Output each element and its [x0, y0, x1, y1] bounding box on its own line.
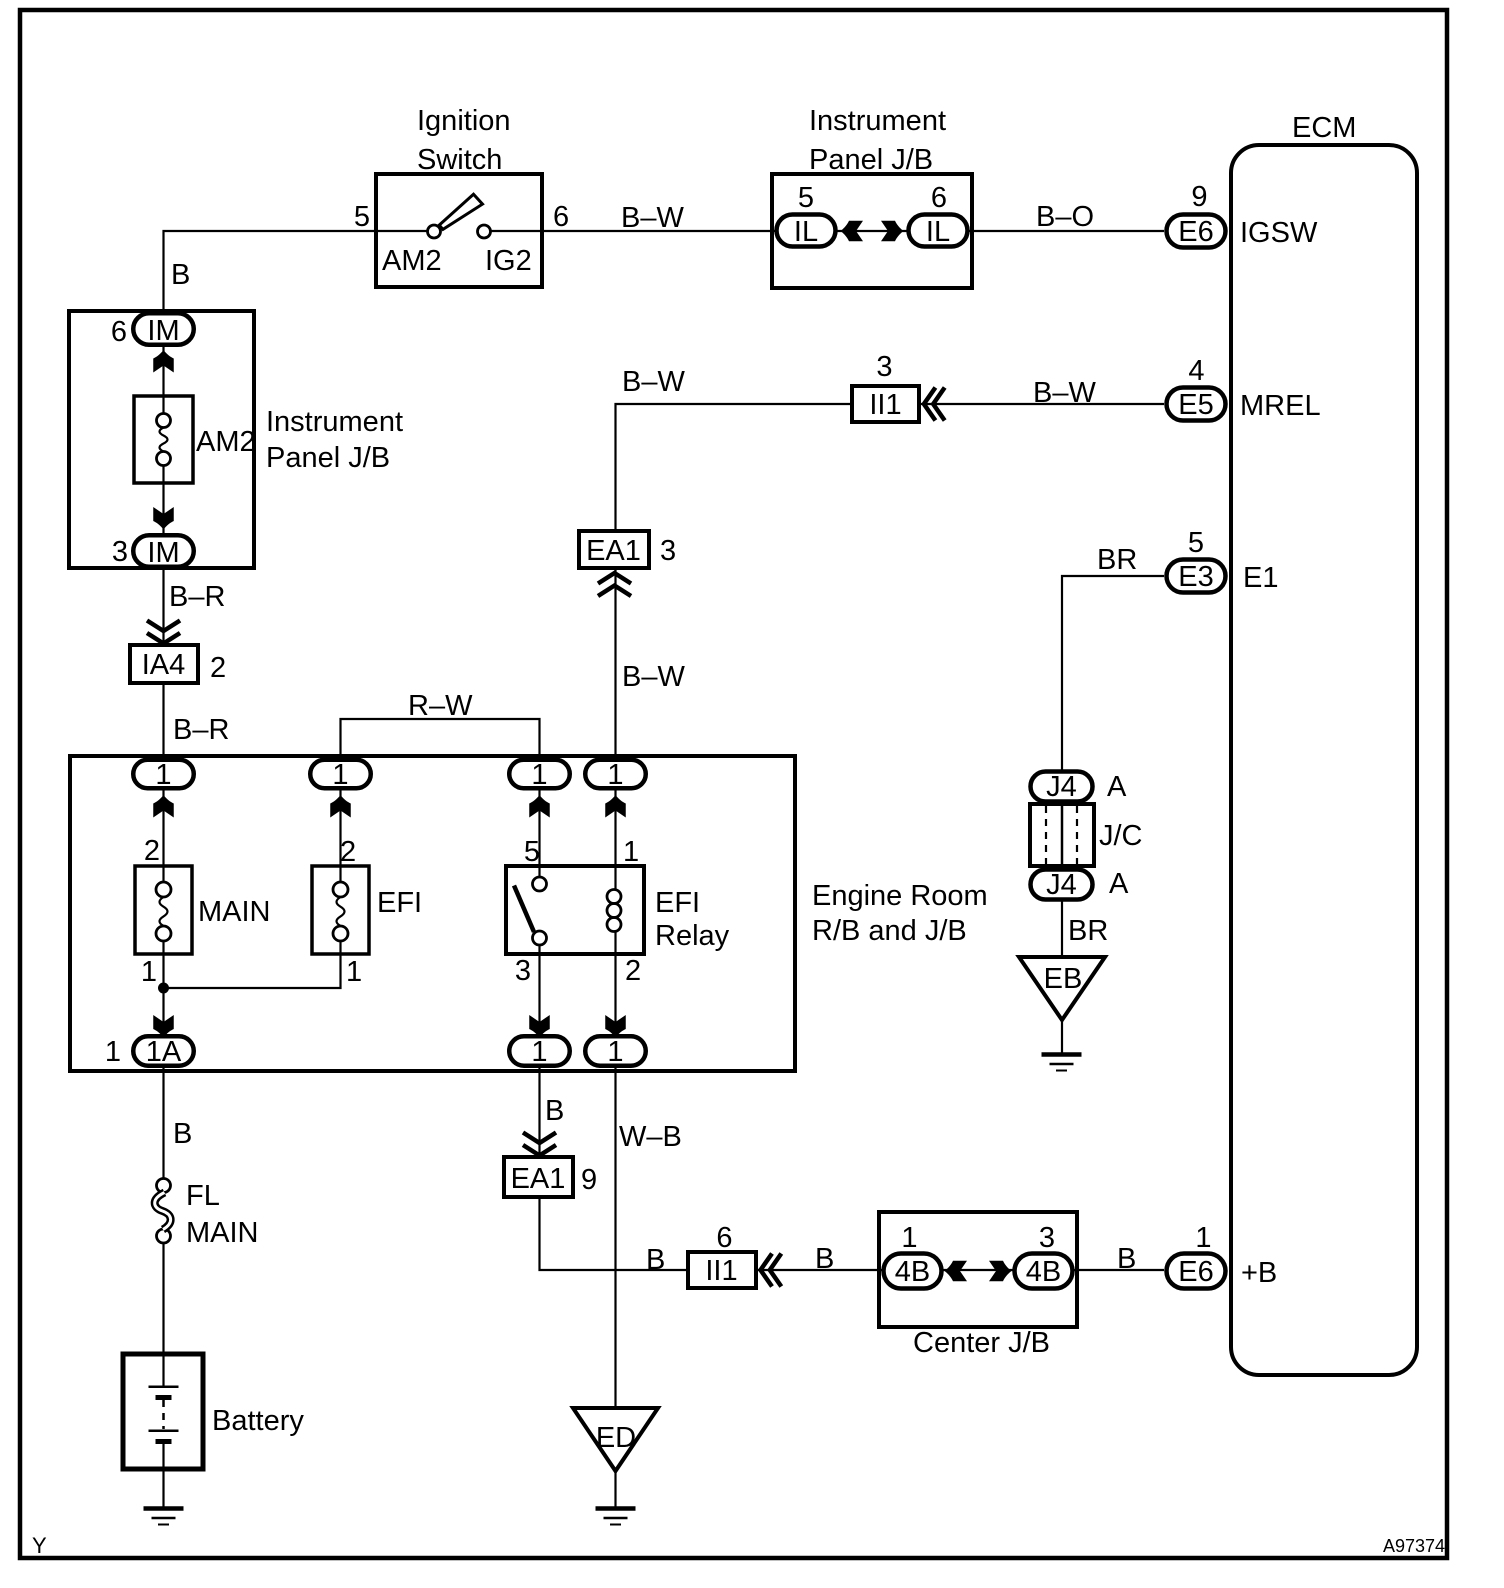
svg-text:Switch: Switch	[417, 144, 502, 176]
svg-text:B: B	[815, 1243, 834, 1275]
svg-text:Instrument: Instrument	[809, 105, 946, 137]
svg-text:1: 1	[1195, 1222, 1211, 1254]
chevron arrow into IA4	[147, 621, 180, 644]
chevron arrow into EA1 3	[598, 573, 631, 596]
svg-text:3: 3	[876, 351, 892, 383]
svg-text:ECM: ECM	[1292, 112, 1356, 144]
svg-text:J/C: J/C	[1099, 820, 1143, 852]
center J/B box	[879, 1212, 1077, 1359]
ground ED triangle	[573, 1408, 658, 1471]
svg-text:A: A	[1109, 868, 1129, 900]
ground symbol EB	[1042, 1055, 1082, 1071]
svg-text:6: 6	[111, 316, 127, 348]
svg-text:E3: E3	[1178, 561, 1213, 593]
connector oval E6 9 (IGSW)	[1167, 181, 1318, 249]
svg-text:AM2: AM2	[196, 426, 256, 458]
svg-text:IL: IL	[926, 216, 950, 248]
svg-text:4B: 4B	[1026, 1256, 1061, 1288]
svg-text:Engine Room: Engine Room	[812, 880, 988, 912]
arrow up into IM 6	[153, 350, 174, 373]
svg-text:3: 3	[1039, 1222, 1055, 1254]
fuse AM2	[134, 396, 256, 483]
connector oval 1 (relay coil bottom)	[585, 1036, 646, 1068]
chevron arrow into II1 3	[924, 388, 945, 421]
arrow up into relay switch top oval	[529, 795, 550, 818]
svg-text:E6: E6	[1178, 216, 1213, 248]
connector oval 1A (pin 1)	[105, 1036, 194, 1068]
svg-text:EA1: EA1	[511, 1163, 566, 1195]
svg-text:1A: 1A	[146, 1036, 182, 1068]
svg-text:1: 1	[607, 1036, 623, 1068]
fuse EFI	[312, 836, 422, 988]
svg-text:2: 2	[340, 836, 356, 868]
connector oval 4B 1	[884, 1222, 942, 1289]
svg-text:E1: E1	[1243, 562, 1278, 594]
connector oval 1 (EFI top)	[310, 759, 371, 791]
wire inside instrument panel J/B (AM2 fuse column)	[162, 347, 164, 398]
svg-text:R–W: R–W	[408, 690, 473, 722]
connector oval E5 4 (MREL)	[1167, 355, 1321, 422]
svg-text:B–W: B–W	[621, 202, 684, 234]
svg-text:Relay: Relay	[655, 920, 730, 952]
svg-text:B: B	[173, 1118, 192, 1150]
wire W-B from relay coil to ED ground	[614, 1067, 616, 1409]
fuse MAIN	[135, 835, 271, 988]
svg-text:IM: IM	[147, 315, 179, 347]
svg-text:Instrument: Instrument	[266, 406, 403, 438]
instrument panel J/B box (left)	[69, 311, 403, 568]
svg-text:3: 3	[660, 535, 676, 567]
svg-text:1: 1	[155, 759, 171, 791]
svg-text:1: 1	[105, 1036, 121, 1068]
svg-text:ED: ED	[596, 1422, 636, 1454]
svg-text:IL: IL	[794, 216, 818, 248]
arrow down into IM 3	[153, 507, 174, 530]
arrow left between 4B ovals	[945, 1261, 968, 1282]
svg-text:MAIN: MAIN	[186, 1217, 259, 1249]
wire IGSW row: IG2 to IL and E6	[491, 230, 1165, 232]
svg-text:1: 1	[141, 956, 157, 988]
ground EB triangle	[1019, 957, 1105, 1020]
ground symbol battery	[144, 1509, 184, 1525]
svg-text:A: A	[1107, 771, 1127, 803]
connector II1 3 (MREL row)	[852, 351, 919, 422]
wire relay switch column top	[538, 790, 540, 868]
svg-text:2: 2	[144, 835, 160, 867]
junction connector J/C	[1030, 804, 1143, 866]
svg-text:1: 1	[607, 759, 623, 791]
wire B from relay to EA1-9 and +B row	[540, 1067, 1165, 1270]
svg-text:6: 6	[716, 1222, 732, 1254]
arrow down into relay coil bottom oval	[605, 1015, 626, 1038]
svg-text:E6: E6	[1178, 1256, 1213, 1288]
svg-text:5: 5	[354, 201, 370, 233]
svg-text:4B: 4B	[895, 1256, 930, 1288]
connector oval E3 5 (E1)	[1167, 527, 1279, 594]
arrow right between IL ovals	[881, 221, 904, 242]
battery	[123, 1354, 304, 1469]
svg-text:B: B	[646, 1244, 665, 1276]
chevron arrow into EA1 9	[523, 1133, 556, 1156]
svg-text:E5: E5	[1178, 389, 1213, 421]
svg-text:II1: II1	[705, 1255, 737, 1287]
svg-text:IG2: IG2	[485, 245, 532, 277]
svg-text:IA4: IA4	[142, 649, 186, 681]
svg-text:EFI: EFI	[655, 887, 700, 919]
svg-text:B: B	[545, 1095, 564, 1127]
engine room R/B and J/B box	[70, 756, 988, 1071]
svg-text:6: 6	[931, 182, 947, 214]
arrow down into 1A oval	[153, 1015, 174, 1038]
connector EA1 3	[579, 531, 676, 568]
svg-text:4: 4	[1188, 355, 1204, 387]
svg-text:EA1: EA1	[586, 535, 641, 567]
svg-text:AM2: AM2	[382, 245, 442, 277]
instrument panel J/B box (top)	[772, 105, 972, 288]
svg-text:1: 1	[901, 1222, 917, 1254]
svg-text:1: 1	[623, 836, 639, 868]
svg-text:5: 5	[1188, 527, 1204, 559]
wire BR from E3 to J4	[1062, 576, 1164, 770]
svg-text:5: 5	[524, 836, 540, 868]
connector II1 6 (+B row)	[688, 1222, 756, 1288]
fusible link FL MAIN	[155, 1179, 259, 1250]
svg-text:B–W: B–W	[622, 661, 685, 693]
wire EB apex to ground	[1061, 1020, 1063, 1054]
svg-text:B: B	[1117, 1243, 1136, 1275]
connector oval J4 A (top)	[1031, 771, 1128, 803]
svg-text:EB: EB	[1044, 963, 1083, 995]
svg-text:1: 1	[332, 759, 348, 791]
svg-text:5: 5	[798, 182, 814, 214]
wire MAIN fuse column	[162, 790, 164, 868]
node junction MAIN/EFI	[158, 983, 169, 994]
svg-text:Panel J/B: Panel J/B	[266, 442, 390, 474]
ignition switch box	[376, 105, 542, 287]
svg-text:II1: II1	[869, 389, 901, 421]
wire battery column B	[162, 1067, 164, 1180]
connector oval 1 (relay switch bottom)	[509, 1036, 570, 1068]
svg-text:2: 2	[210, 652, 226, 684]
switch contacts AM2/IG2 inside ignition switch	[354, 194, 569, 277]
connector oval J4 A (bottom)	[1031, 868, 1130, 901]
wire R-W	[341, 719, 540, 758]
connector oval 1 (relay coil top)	[585, 759, 646, 791]
svg-text:B–W: B–W	[622, 366, 685, 398]
svg-text:9: 9	[1191, 181, 1207, 213]
svg-text:+B: +B	[1241, 1257, 1277, 1289]
wire junction to EFI fuse bottom	[164, 952, 341, 988]
wire relay switch column bottom	[538, 952, 540, 1035]
connector oval IM 6	[111, 313, 194, 348]
svg-text:6: 6	[553, 201, 569, 233]
svg-text:MREL: MREL	[1240, 390, 1321, 422]
connector IA4 2	[130, 645, 226, 684]
arrow left between IL ovals	[841, 221, 864, 242]
connector oval E6 1 (+B)	[1167, 1222, 1278, 1289]
connector oval IL 5	[777, 182, 836, 248]
svg-text:1: 1	[531, 759, 547, 791]
svg-text:BR: BR	[1068, 915, 1108, 947]
svg-text:IGSW: IGSW	[1240, 217, 1318, 249]
svg-text:W–B: W–B	[619, 1121, 682, 1153]
svg-text:J4: J4	[1046, 771, 1077, 803]
svg-text:3: 3	[112, 536, 128, 568]
wire J4 to EB triangle	[1061, 901, 1063, 958]
connector oval IL 6	[909, 182, 968, 248]
connector oval 1 (MAIN top)	[133, 759, 194, 791]
svg-text:B–R: B–R	[169, 581, 225, 613]
svg-text:Ignition: Ignition	[417, 105, 511, 137]
wire battery to ground	[162, 1469, 164, 1508]
arrow up into EFI top oval	[330, 795, 351, 818]
svg-text:BR: BR	[1097, 544, 1137, 576]
svg-text:3: 3	[515, 955, 531, 987]
svg-text:Battery: Battery	[212, 1405, 304, 1437]
svg-text:J4: J4	[1046, 869, 1077, 901]
svg-text:R/B and J/B: R/B and J/B	[812, 915, 967, 947]
arrow down into relay switch bottom oval	[529, 1015, 550, 1038]
wire B-W coil column to MREL row	[616, 404, 1165, 758]
svg-text:EFI: EFI	[377, 887, 422, 919]
svg-text:FL: FL	[186, 1180, 220, 1212]
connector EA1 9	[504, 1157, 597, 1197]
wire ED apex to ground	[614, 1471, 616, 1508]
connector oval IM 3	[112, 535, 194, 569]
wire relay coil column	[614, 790, 616, 868]
svg-text:1: 1	[531, 1036, 547, 1068]
chevron arrow into II1 6	[761, 1254, 782, 1287]
svg-text:B–W: B–W	[1033, 377, 1096, 409]
relay EFI Relay	[506, 836, 730, 987]
connector oval 4B 3	[1015, 1222, 1073, 1289]
svg-text:1: 1	[346, 956, 362, 988]
svg-text:Center J/B: Center J/B	[913, 1327, 1050, 1359]
svg-text:B–R: B–R	[173, 714, 229, 746]
wire B-R from IM to engine room via IA4	[162, 569, 164, 758]
svg-text:2: 2	[625, 955, 641, 987]
arrow right between 4B ovals	[989, 1261, 1012, 1282]
svg-text:9: 9	[581, 1164, 597, 1196]
arrow up into relay coil top oval	[605, 795, 626, 818]
arrow up into MAIN top oval	[153, 795, 174, 818]
svg-text:Y: Y	[32, 1533, 47, 1558]
svg-text:MAIN: MAIN	[198, 896, 271, 928]
wire B from ignition switch to IM junction	[164, 231, 428, 313]
svg-text:Panel J/B: Panel J/B	[809, 144, 933, 176]
svg-text:B: B	[171, 259, 190, 291]
svg-text:B–O: B–O	[1036, 201, 1094, 233]
ECM block U1	[1231, 112, 1417, 1375]
ground symbol ED	[596, 1509, 636, 1525]
svg-text:IM: IM	[147, 537, 179, 569]
svg-text:A97374: A97374	[1383, 1536, 1445, 1556]
connector oval 1 (relay switch top)	[509, 759, 570, 791]
wire EFI fuse column	[339, 790, 341, 868]
